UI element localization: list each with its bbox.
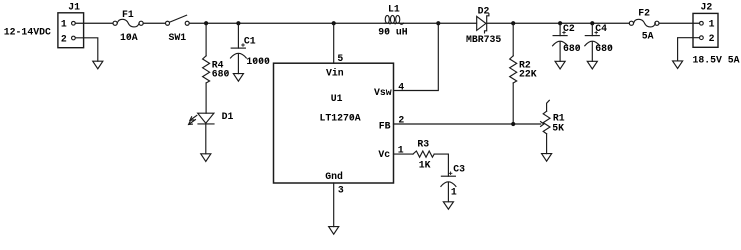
ground under J2 pin2 [673, 61, 683, 69]
potentiometer R1 [543, 100, 550, 153]
diode D2 schottky [477, 14, 489, 33]
svg-text:LT1270A: LT1270A [320, 112, 361, 123]
IC U1 LT1270A [274, 63, 394, 183]
ground under C4 [587, 61, 597, 69]
capacitor C4 [585, 23, 600, 61]
svg-text:5K: 5K [552, 122, 564, 133]
wire pin 4 Vsw [394, 23, 439, 90]
svg-text:680: 680 [563, 43, 581, 54]
junction dot pin5 tap [332, 21, 336, 25]
capacitor C3 [441, 172, 456, 202]
svg-text:Gnd: Gnd [325, 171, 343, 182]
junction dot C2 tap [558, 21, 562, 25]
svg-text:J1: J1 [68, 2, 80, 13]
svg-text:12-14VDC: 12-14VDC [4, 27, 51, 38]
junction dot R4 tap [204, 21, 208, 25]
connector J1 [58, 13, 84, 48]
wire R4 to D1 [205, 83, 207, 113]
svg-text:D2: D2 [478, 5, 490, 16]
wire pin 3 Gnd [333, 183, 335, 227]
svg-text:2: 2 [398, 114, 404, 125]
inductor L1 [385, 15, 404, 24]
svg-text:90 uH: 90 uH [378, 26, 408, 37]
svg-text:U1: U1 [331, 93, 343, 104]
svg-text:L1: L1 [388, 4, 400, 15]
svg-text:1K: 1K [419, 159, 431, 170]
svg-text:C1: C1 [244, 35, 256, 46]
svg-text:10A: 10A [120, 32, 138, 43]
svg-text:Vsw: Vsw [374, 87, 392, 98]
svg-text:J2: J2 [701, 2, 713, 13]
ground under J1 pin2 [93, 61, 103, 69]
svg-text:680: 680 [212, 69, 230, 80]
svg-text:18.5V 5A: 18.5V 5A [693, 54, 740, 65]
resistor R3 [413, 151, 434, 157]
slashed-zero marks [127, 29, 611, 119]
svg-text:1: 1 [709, 19, 715, 30]
capacitor C1 [231, 23, 247, 73]
fuse F1 [113, 19, 143, 27]
junction dot C1 tap [236, 21, 240, 25]
wire pin 5 [333, 23, 335, 63]
svg-text:5A: 5A [642, 31, 654, 42]
junction dot R2 tap [511, 21, 515, 25]
wire R2 to FB node [512, 83, 514, 124]
ground under D1 [201, 154, 211, 162]
wire J1 pin1 to F1 [76, 22, 113, 24]
capacitor C2 [553, 23, 568, 61]
ground under C1 [233, 74, 243, 82]
svg-text:Vc: Vc [378, 149, 390, 160]
svg-text:680: 680 [595, 43, 613, 54]
junction dot FB node [511, 122, 515, 126]
wire J1 pin2 [76, 38, 98, 61]
svg-text:Vin: Vin [326, 68, 344, 79]
svg-text:22K: 22K [519, 69, 537, 80]
svg-text:2: 2 [61, 33, 67, 44]
svg-text:F2: F2 [638, 7, 650, 18]
wire down to R2 [512, 23, 514, 56]
resistor R2 [510, 56, 517, 83]
wire R3 to C3 [434, 154, 448, 176]
ground under C2 [555, 61, 565, 69]
svg-text:5: 5 [337, 53, 343, 64]
wire J2 pin2 to ground [678, 38, 700, 61]
ground under R1 [542, 154, 552, 162]
wire pin 1 Vc [394, 153, 414, 155]
switch SW1 [166, 15, 190, 25]
wire SW1 to L1 [189, 22, 385, 24]
wire F1 to SW1 [143, 22, 165, 24]
ground under C3 [443, 202, 453, 209]
svg-text:1: 1 [451, 186, 457, 197]
svg-text:1: 1 [61, 19, 67, 30]
connector J2 [693, 13, 718, 47]
svg-text:4: 4 [398, 81, 404, 92]
svg-text:C4: C4 [595, 23, 607, 34]
wire pin 2 FB [394, 123, 541, 125]
wire D2 to F2 [487, 22, 629, 24]
LED D1 [189, 113, 214, 124]
fuse F2 [629, 19, 659, 27]
svg-text:F1: F1 [122, 9, 134, 20]
svg-text:FB: FB [379, 120, 391, 131]
wire D1 to ground [205, 124, 207, 154]
svg-text:SW1: SW1 [169, 32, 187, 43]
svg-text:MBR735: MBR735 [466, 34, 501, 45]
wire F2 to J2 [659, 22, 699, 24]
wire down to R4 [205, 23, 207, 56]
junction dot C4 tap [590, 21, 594, 25]
svg-text:R3: R3 [417, 138, 429, 149]
svg-text:C2: C2 [563, 23, 575, 34]
junction dot Vsw tap [436, 21, 440, 25]
svg-text:D1: D1 [222, 111, 234, 122]
ground under U1 [329, 227, 339, 235]
svg-text:2: 2 [709, 33, 715, 44]
wire L1 to D2 [404, 22, 477, 24]
wiper arrow into R1 [541, 122, 544, 127]
resistor R4 [203, 56, 210, 83]
svg-text:C3: C3 [453, 164, 465, 175]
svg-text:3: 3 [338, 185, 344, 196]
svg-text:1: 1 [398, 145, 404, 156]
